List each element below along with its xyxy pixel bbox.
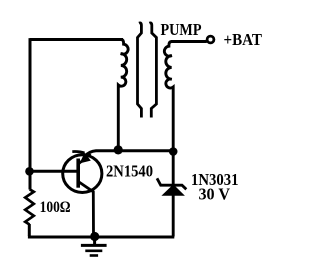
transistor Q1 emitter lead — [79, 154, 91, 164]
transistor Q1 emitter arrow — [80, 153, 91, 164]
pump lead left — [138, 23, 142, 118]
transistor Q1 collector lead — [79, 182, 94, 237]
wire bottom rail — [28, 236, 174, 239]
svg-text:+BAT: +BAT — [224, 30, 263, 49]
zener D1 bent cathode bar — [157, 178, 186, 189]
transistor Q1 circle — [63, 155, 102, 193]
ground bar 2 — [85, 250, 102, 253]
ground stub — [93, 237, 96, 245]
transformer primary L1 — [118, 40, 128, 150]
junction dot base — [25, 167, 34, 176]
wire left vertical upper — [29, 38, 32, 189]
ground bar 3 — [90, 254, 98, 257]
junction dot L1 bottom — [114, 145, 123, 154]
wire emitter rail left overshoot — [72, 152, 84, 153]
svg-text:2N1540: 2N1540 — [106, 161, 153, 180]
junction dot ground — [90, 232, 99, 241]
transistor Q1 base wire — [30, 170, 77, 173]
wire top horizontal — [30, 38, 123, 41]
ground bar 1 — [81, 244, 107, 247]
junction dot L2 zener top — [169, 147, 178, 156]
wire emitter rail — [85, 151, 174, 157]
terminal +BAT circle — [207, 36, 214, 43]
svg-text:100Ω: 100Ω — [40, 199, 71, 216]
transformer secondary L2 — [164, 42, 206, 237]
resistor R1 100Ω — [25, 189, 34, 224]
pump lead right — [149, 23, 156, 118]
zener D1 triangle — [161, 186, 185, 196]
svg-text:PUMP: PUMP — [161, 20, 202, 39]
wire left vertical lower — [28, 224, 31, 236]
svg-text:30 V: 30 V — [199, 185, 231, 204]
transistor Q1 base bar — [76, 159, 80, 188]
